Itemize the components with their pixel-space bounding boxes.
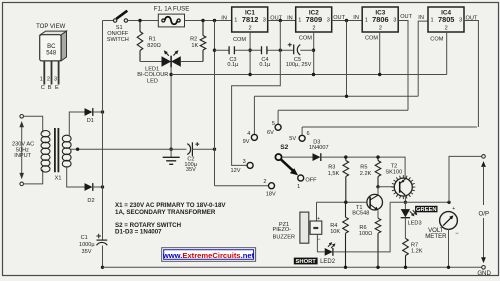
svg-text:1: 1: [40, 77, 43, 83]
svg-text:1: 1: [234, 17, 237, 23]
svg-text:LED: LED: [147, 79, 158, 85]
svg-text:D2: D2: [87, 198, 94, 204]
diode D2: [85, 183, 95, 204]
wire buzzer plus to T1 base node: [316, 202, 318, 221]
svg-text:D1: D1: [87, 118, 94, 124]
node IC2 OUT: [345, 19, 348, 22]
svg-text:X1 = 230V AC PRIMARY TO 18V-0: X1 = 230V AC PRIMARY TO 18V-0-18V: [115, 202, 226, 209]
wire C1 to bottom rail: [102, 246, 104, 268]
wire D2 cathode to raw node: [93, 186, 103, 188]
capacitor C2: [184, 142, 199, 173]
svg-text:100Ω: 100Ω: [359, 231, 373, 237]
svg-text:5V: 5V: [289, 136, 296, 142]
node D2/raw: [101, 185, 104, 188]
svg-text:3: 3: [54, 77, 57, 83]
svg-text:2: 2: [445, 26, 448, 32]
svg-text:BI-COLOUR: BI-COLOUR: [137, 72, 168, 78]
resistor R4: [330, 202, 348, 267]
svg-text:F1, 1A FUSE: F1, 1A FUSE: [154, 6, 190, 13]
capacitor row wire: [215, 49, 314, 51]
wire S1 to fuse: [128, 20, 159, 22]
resistor R3: [328, 157, 349, 202]
regulator IC1 7812: [221, 7, 267, 43]
diode D1: [85, 108, 94, 124]
label GREEN: [415, 206, 437, 213]
svg-text:INPUT: INPUT: [14, 153, 31, 159]
svg-text:1000µ: 1000µ: [79, 242, 95, 248]
capacitor C4: [259, 46, 271, 68]
svg-text:R3: R3: [328, 165, 335, 171]
wire secondary bottom to D2: [67, 166, 85, 187]
wire T1 collector: [377, 187, 379, 195]
node raw branch top: [213, 19, 216, 22]
svg-text:3: 3: [243, 159, 246, 165]
node R3 top: [344, 155, 347, 158]
wire raw DC vertical S1 to C1: [102, 21, 104, 241]
node 9V net: [345, 95, 348, 98]
svg-text:S2: S2: [280, 144, 288, 151]
GND terminal: [477, 257, 491, 277]
svg-text:0.1µ: 0.1µ: [259, 62, 271, 68]
wire 12V feed from IC1 OUT: [232, 21, 281, 166]
wire IC4 OUT to 5V feed corner: [464, 21, 478, 128]
diode D3: [309, 140, 329, 162]
svg-text:B: B: [48, 85, 52, 91]
regulator IC2 7809: [296, 7, 332, 42]
wire centre tap: [70, 148, 187, 150]
node LED1/ground rail: [169, 73, 172, 76]
svg-text:D1-D3 = 1N4007: D1-D3 = 1N4007: [115, 229, 162, 236]
svg-text:SHORT: SHORT: [296, 259, 317, 265]
switch S1: [107, 11, 129, 43]
LED3: [401, 202, 422, 226]
node centre tap at transformer: [76, 148, 79, 151]
node C-row IC1 OUT: [279, 49, 282, 52]
regulator IC4 7805: [428, 7, 464, 43]
wire LED3 to R7: [404, 218, 406, 239]
node O/P volt meter: [447, 201, 450, 204]
volt meter: [425, 206, 459, 267]
svg-text:3: 3: [393, 17, 396, 23]
svg-text:−: −: [455, 231, 459, 237]
node R3 bottom / T1 base: [344, 201, 347, 204]
svg-text:C: C: [41, 85, 45, 91]
svg-text:1: 1: [298, 17, 301, 23]
svg-text:3: 3: [459, 17, 462, 23]
svg-text:IN: IN: [221, 16, 227, 22]
node raw / C-row: [213, 49, 216, 52]
svg-text:12V: 12V: [231, 168, 241, 174]
svg-text:IN: IN: [287, 16, 293, 22]
regulator IC3 7806: [362, 7, 398, 42]
svg-text:6V: 6V: [267, 130, 274, 136]
LED2: [320, 242, 336, 265]
svg-text:5: 5: [272, 121, 275, 127]
wire IC1 OUT to IC2 IN: [268, 20, 296, 22]
rotary contact 2 18V: [263, 179, 276, 198]
transistor package BC548 top view: [36, 24, 66, 91]
wire IC2 OUT to IC3 IN: [332, 20, 363, 22]
node R5 top: [376, 155, 379, 158]
svg-text:2: 2: [47, 77, 50, 83]
wire C2 to raw vertical: [192, 148, 214, 150]
svg-text:SWITCH: SWITCH: [107, 37, 129, 43]
wire fuse to IC1 IN: [185, 20, 232, 22]
svg-text:2: 2: [249, 26, 252, 32]
wire S2 pole to D3: [282, 156, 313, 158]
rotary contact 4 9V: [243, 131, 258, 145]
svg-text:+: +: [317, 216, 320, 222]
wire D1 cathode to raw node: [93, 111, 103, 113]
svg-text:X1: X1: [55, 176, 62, 182]
svg-text:9V: 9V: [243, 139, 250, 145]
bottom rail: [103, 266, 482, 268]
node R2 top: [201, 19, 204, 22]
rotary switch S2 pole: [275, 144, 298, 175]
svg-text:OUT: OUT: [400, 14, 412, 20]
svg-text:SK100: SK100: [385, 169, 402, 175]
piezo buzzer PZ1: [272, 212, 321, 243]
svg-text:IN: IN: [418, 15, 424, 21]
fuse F1: [154, 6, 190, 27]
wire IC3 COM to ground rail: [379, 32, 381, 75]
wire T2 collector to meter node: [390, 201, 449, 203]
node R4 / bottom rail: [344, 266, 347, 269]
svg-text:GREEN: GREEN: [416, 207, 437, 213]
LED1 bi-colour: [137, 50, 181, 85]
svg-text:35V: 35V: [82, 249, 92, 255]
ground rail COM: [171, 74, 447, 76]
svg-text:7812: 7812: [242, 15, 258, 24]
label SHORT: [294, 258, 318, 266]
svg-text:1K: 1K: [191, 43, 198, 49]
svg-text:2.2K: 2.2K: [360, 171, 372, 177]
capacitor C5: [286, 43, 312, 68]
capacitor C3: [227, 46, 239, 68]
node R7 / bottom rail: [404, 266, 407, 269]
transistor T2 SK100: [385, 164, 415, 203]
svg-text:COM: COM: [365, 36, 378, 42]
svg-text:100µ, 25V: 100µ, 25V: [286, 62, 312, 68]
rotary contact 5 6V: [267, 121, 281, 136]
svg-text:BC548: BC548: [352, 211, 369, 217]
svg-text:18V: 18V: [266, 192, 276, 198]
svg-text:1A, SECONDARY TRANSFORMER: 1A, SECONDARY TRANSFORMER: [115, 209, 216, 216]
url box www.ExtremeCircuits.net: [162, 248, 256, 262]
svg-text:1,5K: 1,5K: [328, 171, 340, 177]
svg-text:1.2K: 1.2K: [411, 249, 423, 255]
notes text: [115, 202, 226, 236]
svg-text:R5: R5: [360, 165, 367, 171]
node meter / bottom rail: [447, 266, 450, 269]
svg-text:BUZZER: BUZZER: [273, 234, 295, 240]
svg-text:4: 4: [247, 131, 250, 137]
node D1/raw: [101, 110, 104, 113]
wire secondary top to D1: [69, 112, 84, 137]
node centre tap ground: [169, 148, 172, 151]
resistor R2: [190, 21, 206, 62]
svg-text:COM: COM: [430, 37, 443, 43]
svg-text:2: 2: [379, 26, 382, 32]
svg-text:COM: COM: [233, 37, 246, 43]
svg-text:0.1µ: 0.1µ: [227, 62, 239, 68]
wire T1 emitter to R6: [377, 210, 379, 218]
transformer X1: [41, 128, 71, 182]
ground symbol: [163, 149, 180, 164]
node T2 collector: [404, 201, 407, 204]
rotary contact 1 OFF: [297, 175, 317, 190]
svg-text:OFF: OFF: [305, 178, 317, 184]
node C1 / bottom rail: [101, 266, 104, 269]
wire T2 base: [378, 186, 394, 188]
svg-text:BC: BC: [47, 44, 56, 50]
svg-text:OUT: OUT: [466, 15, 478, 21]
O/P terminal: [479, 155, 490, 258]
svg-text:www.ExtremeCircuits.net: www.ExtremeCircuits.net: [162, 251, 255, 260]
svg-text:O/P: O/P: [479, 210, 490, 217]
svg-text:1: 1: [297, 184, 300, 190]
resistor R1: [137, 21, 161, 62]
wire IC4 COM to ground rail: [446, 32, 448, 75]
wire buzzer minus to LED2: [317, 234, 324, 252]
wire LED1 centre down to ground node: [170, 67, 172, 149]
svg-text:10K: 10K: [330, 229, 340, 235]
svg-text:6: 6: [306, 131, 309, 137]
capacitor C1: [79, 234, 107, 255]
svg-text:LED3: LED3: [408, 221, 422, 227]
wire D3 to T2 emitter rail: [321, 157, 405, 178]
svg-text:OUT: OUT: [333, 15, 345, 21]
wire IC2 COM to ground rail: [313, 32, 315, 75]
node R1 top: [138, 19, 141, 22]
svg-text:1: 1: [365, 17, 368, 23]
wire to 18V contact: [215, 185, 269, 187]
svg-text:+: +: [452, 206, 455, 212]
svg-text:R6: R6: [359, 225, 366, 231]
svg-text:7806: 7806: [372, 15, 388, 24]
wire 6V feed: [278, 110, 408, 124]
svg-text:LED2: LED2: [320, 259, 336, 265]
resistor R5: [360, 157, 381, 187]
svg-text:820Ω: 820Ω: [147, 43, 161, 49]
svg-text:R2: R2: [190, 37, 197, 43]
svg-text:TOP VIEW: TOP VIEW: [36, 24, 65, 30]
wire IC3 OUT to 6V feed corner: [398, 21, 408, 111]
svg-text:R4: R4: [330, 223, 337, 229]
wire T1 base from R3: [317, 201, 367, 203]
wire 9V net row: [254, 21, 418, 135]
node R6 / bottom rail: [376, 266, 379, 269]
wire LED2 cathode to T2 collector net: [333, 202, 390, 252]
wire R2 to LED1: [181, 61, 203, 63]
svg-text:C1: C1: [81, 235, 88, 241]
rotary contact 6 5V: [289, 131, 309, 142]
wire top rail to S1: [103, 20, 114, 22]
wire 9V net up to IC4 IN: [418, 21, 428, 96]
svg-text:35V: 35V: [186, 167, 196, 173]
transistor T1 BC548: [352, 194, 382, 216]
svg-text:2: 2: [312, 26, 315, 32]
svg-text:2: 2: [263, 179, 266, 185]
mains input terminals 230V AC: [12, 115, 43, 186]
svg-text:IN: IN: [353, 15, 359, 21]
wire meter node to O/P terminal: [449, 156, 482, 202]
svg-text:1N4007: 1N4007: [309, 145, 329, 151]
node raw / C2: [213, 148, 216, 151]
resistor R6: [359, 218, 381, 267]
resistor R7: [403, 238, 423, 267]
node IC1 OUT: [279, 19, 282, 22]
node R5 / T1 collector / T2 base: [376, 185, 379, 188]
wire raw branch vertical: [214, 21, 216, 186]
svg-text:COM: COM: [299, 36, 312, 42]
rotary contact 3 12V: [231, 159, 254, 174]
wire IC1 COM to ground rail: [249, 32, 251, 75]
svg-text:PIEZO-: PIEZO-: [272, 227, 291, 233]
svg-text:1: 1: [431, 17, 434, 23]
svg-text:GND: GND: [477, 270, 491, 277]
svg-text:7805: 7805: [438, 15, 454, 24]
svg-text:7809: 7809: [306, 15, 322, 24]
svg-text:METER: METER: [425, 233, 447, 240]
svg-text:E: E: [55, 85, 59, 91]
svg-text:R1: R1: [149, 37, 156, 43]
svg-text:3: 3: [327, 17, 330, 23]
wire 5V feed: [302, 127, 477, 135]
svg-text:3: 3: [263, 17, 266, 23]
wire R1 to LED1: [140, 61, 162, 63]
svg-text:548: 548: [46, 51, 57, 57]
